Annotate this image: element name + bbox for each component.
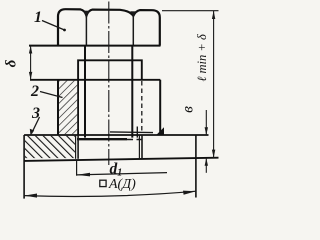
- svg-text:2: 2: [30, 83, 39, 100]
- svg-text:в: в: [180, 106, 197, 113]
- svg-text:δ: δ: [4, 59, 20, 67]
- svg-text:А(Д): А(Д): [108, 177, 136, 192]
- svg-text:1: 1: [34, 9, 42, 26]
- svg-text:ℓ min + δ: ℓ min + δ: [195, 34, 209, 82]
